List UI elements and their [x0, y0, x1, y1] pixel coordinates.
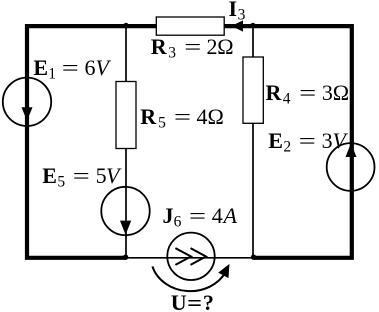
svg-text:E5=5V: E5=5V [42, 163, 122, 191]
svg-text:J6=4A: J6=4A [163, 203, 238, 231]
node junction dot bottom of R4 branch [251, 255, 256, 260]
wire outer loop (left, top, right sides and thick bottom segments) [27, 26, 352, 258]
svg-text:I3: I3 [229, 0, 246, 23]
svg-text:E1=6V: E1=6V [33, 55, 111, 83]
voltage source E2 [327, 143, 375, 191]
voltage source E1 [3, 78, 51, 126]
wire middle branch through R5 and E5 [125, 26, 127, 258]
voltage U reference arrow (arc) [152, 261, 234, 291]
resistor R4 [243, 57, 263, 123]
svg-text:U=?: U=? [171, 290, 214, 312]
svg-text:R4=3Ω: R4=3Ω [266, 80, 350, 108]
wire bottom thin segment through J6 [126, 257, 254, 259]
current source J6 [167, 233, 214, 280]
resistor R3 [156, 17, 224, 35]
current arrow I3 [231, 20, 243, 31]
resistor R5 [116, 82, 136, 149]
node junction dot bottom of E5 branch [123, 255, 128, 260]
wire right-middle branch through R4 [252, 26, 254, 258]
svg-text:E2=3V: E2=3V [268, 128, 348, 156]
node junction dot top of R5 branch [123, 23, 128, 28]
svg-text:R5=4Ω: R5=4Ω [140, 104, 224, 132]
voltage source E5 [101, 187, 149, 235]
node junction dot top of R4 branch [250, 23, 255, 28]
svg-text:R3=2Ω: R3=2Ω [151, 34, 234, 62]
